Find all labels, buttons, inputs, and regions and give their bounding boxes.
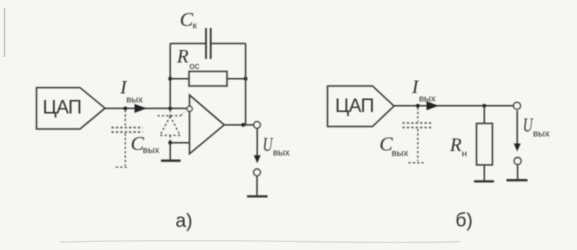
voltage arrow Uвых (right) — [514, 111, 521, 152]
label Cвых (left) — [131, 133, 160, 156]
svg-text:а): а) — [176, 211, 193, 232]
wire: non-inverting input — [170, 142, 189, 144]
terminal: lower (left circuit) — [254, 169, 261, 176]
terminal: output upper (left circuit) — [254, 122, 261, 129]
node: Cвых tap (right) — [416, 104, 420, 108]
node: Rос left junction — [168, 77, 172, 81]
svg-text:вых: вых — [419, 94, 436, 105]
label Uвых (right) — [523, 114, 550, 139]
node: Rн tap — [482, 104, 486, 108]
svg-text:ос: ос — [189, 61, 199, 72]
inversion bubble on op-amp inverting input — [187, 106, 192, 111]
current arrow Iвых (left) — [135, 104, 147, 113]
wire: right feedback vertical to output node — [245, 44, 247, 125]
wire: right ЦАП output to load — [394, 105, 514, 107]
capacitor Cвых (left, dashed) — [112, 110, 143, 167]
svg-text:вых: вых — [126, 95, 143, 106]
wire: Rос right lead — [227, 78, 246, 80]
node: output junction with feedback — [241, 123, 245, 127]
wire: Rос left lead — [170, 78, 189, 80]
ground (op-amp non-inverting input) — [161, 160, 181, 162]
current arrow Iвых (right) — [427, 101, 439, 110]
ground (right output) — [507, 179, 528, 181]
terminal: lower (right circuit) — [514, 158, 521, 165]
capacitor Cк — [206, 28, 211, 59]
op-amp DA1 triangle — [190, 95, 225, 154]
node: Cвых tap (left) — [123, 107, 127, 111]
node: feedback tap on input wire — [168, 107, 172, 111]
label Cк — [180, 9, 198, 32]
label Rн — [449, 135, 467, 160]
wire: left feedback vertical — [169, 44, 171, 109]
svg-text:ЦАП: ЦАП — [43, 98, 82, 119]
capacitor Cвых (right, dashed) — [403, 108, 434, 163]
wire: left ЦАП output to op-amp inverting input — [105, 107, 187, 109]
label Iвых (left) — [119, 78, 143, 106]
svg-text:R: R — [176, 47, 189, 68]
zener diode VD (dashed, parasitic output) — [158, 110, 185, 143]
node: non-inverting input junction — [168, 141, 172, 145]
svg-text:вых: вых — [392, 148, 409, 159]
wire: non-inverting input to ground — [169, 143, 171, 160]
terminal: output upper (right circuit) — [514, 102, 521, 109]
svg-text:вых: вых — [533, 128, 550, 139]
node: Rос right junction — [244, 77, 248, 81]
label Iвых (right) — [411, 77, 436, 105]
wire: lower terminal to ground (left) — [256, 176, 258, 196]
wire: Rн bottom lead — [483, 165, 485, 181]
resistor Rос — [189, 71, 227, 86]
ground (Rн) — [474, 180, 494, 182]
wire: op-amp output — [224, 124, 254, 126]
wire: lower terminal to ground (right) — [517, 165, 519, 180]
DAC block U-DAC-B (right ЦАП) — [328, 86, 395, 127]
svg-text:ЦАП: ЦАП — [335, 96, 374, 117]
svg-text:б): б) — [456, 210, 473, 231]
svg-text:R: R — [449, 135, 462, 156]
label Uвых (left) — [263, 134, 290, 158]
DAC block U-DAC-A (left ЦАП) — [37, 88, 106, 129]
voltage arrow Uвых (left) — [254, 129, 261, 164]
svg-text:вых: вых — [273, 147, 290, 158]
svg-text:вых: вых — [143, 145, 160, 156]
label Rос — [176, 47, 200, 72]
wire: top feedback branch to Cк — [170, 43, 245, 45]
wire: Rн top lead — [483, 106, 485, 124]
svg-text:н: н — [462, 148, 467, 159]
resistor Rн — [477, 123, 493, 164]
ground (left output) — [247, 195, 268, 197]
label Cвых (right) — [379, 134, 408, 160]
